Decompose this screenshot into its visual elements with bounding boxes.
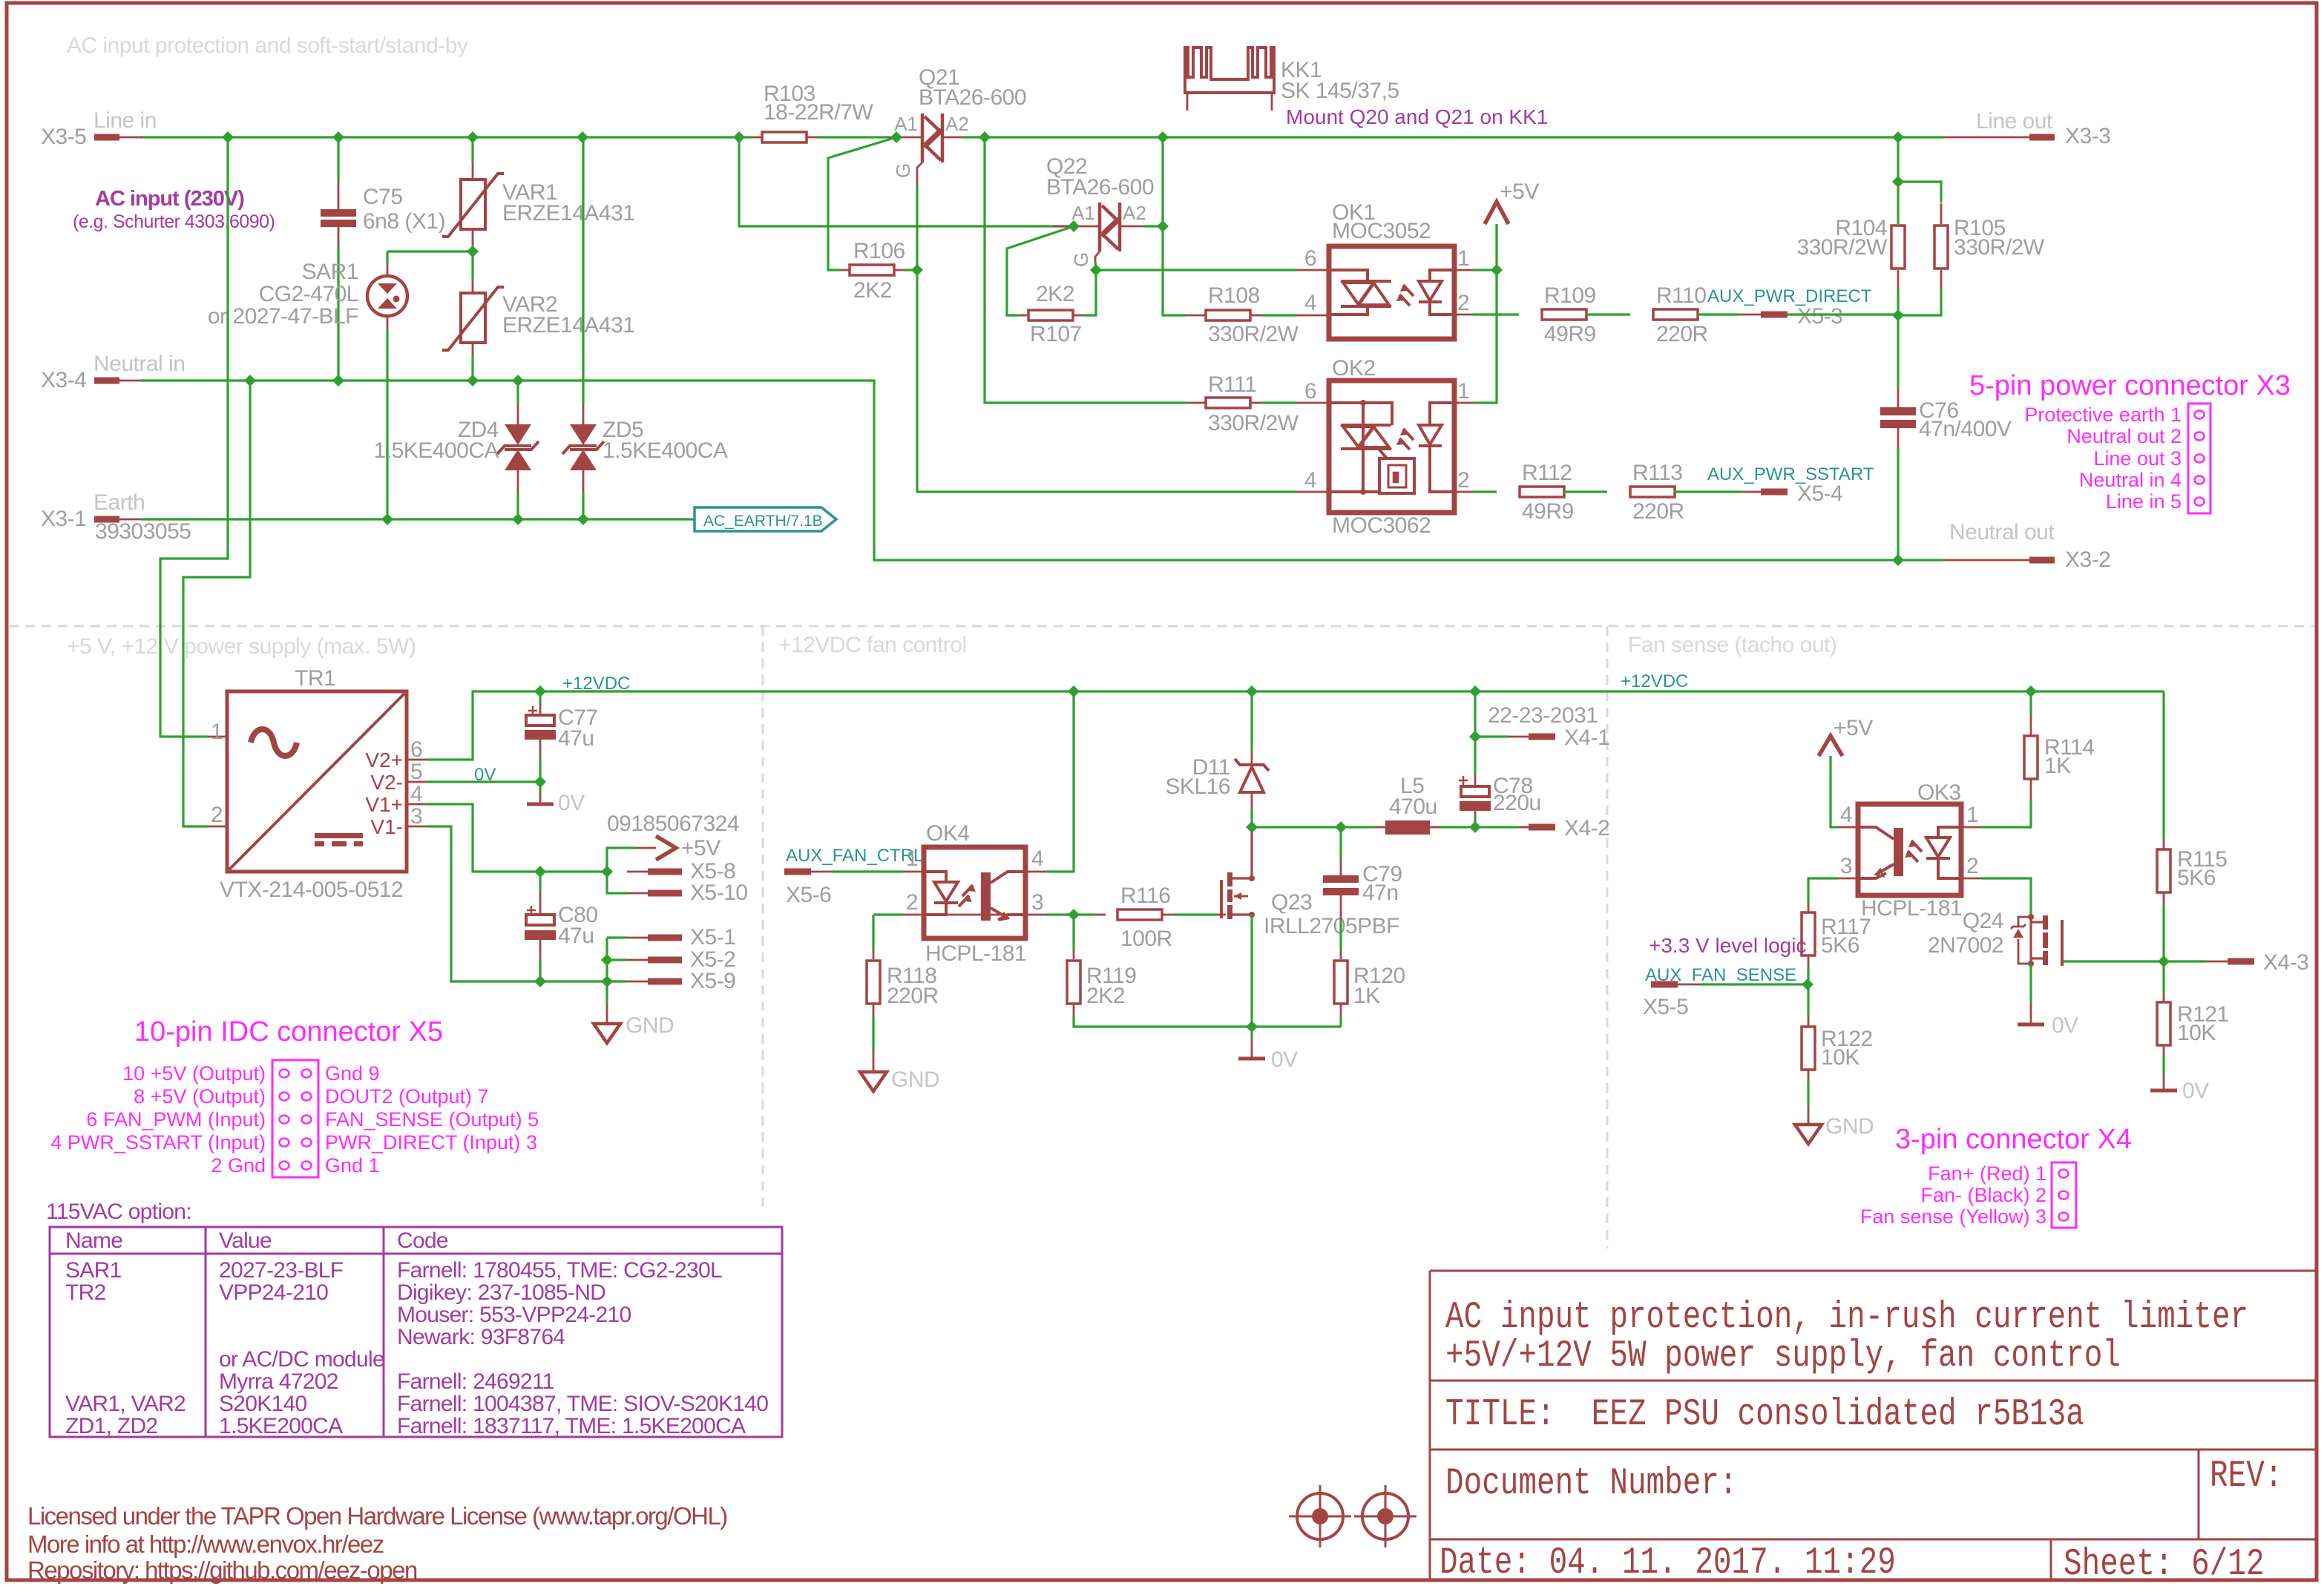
svg-text:10K: 10K bbox=[2177, 1021, 2216, 1045]
resistor R111 bbox=[1206, 398, 1250, 408]
svg-text:C75: C75 bbox=[363, 185, 403, 209]
svg-text:Myrra 47202: Myrra 47202 bbox=[219, 1369, 338, 1394]
svg-text:A2: A2 bbox=[1123, 202, 1146, 224]
svg-text:Farnell: 1780455, TME: CG2-230: Farnell: 1780455, TME: CG2-230L bbox=[397, 1258, 722, 1283]
wire neutral to TR1 pin2 bbox=[183, 381, 250, 826]
svg-text:R113: R113 bbox=[1632, 461, 1683, 485]
svg-text:1: 1 bbox=[1457, 379, 1469, 404]
svg-text:Mouser: 553-VPP24-210: Mouser: 553-VPP24-210 bbox=[397, 1303, 631, 1327]
svg-text:X4-2: X4-2 bbox=[1564, 816, 1609, 840]
svg-text:Digikey: 237-1085-ND: Digikey: 237-1085-ND bbox=[397, 1280, 605, 1305]
wire line to Q22 A1 bbox=[739, 137, 1074, 226]
pin X5-2 bbox=[607, 958, 627, 961]
svg-text:SKL16: SKL16 bbox=[1165, 774, 1230, 799]
svg-text:V1-: V1- bbox=[370, 815, 403, 838]
inductor L5 bbox=[1375, 826, 1385, 829]
optocoupler OK3 bbox=[1858, 804, 1961, 895]
svg-text:R107: R107 bbox=[1030, 322, 1082, 346]
svg-text:X3-5: X3-5 bbox=[41, 125, 86, 149]
svg-text:2: 2 bbox=[906, 890, 918, 915]
svg-text:AUX_FAN_SENSE: AUX_FAN_SENSE bbox=[1645, 965, 1796, 985]
svg-text:X5-1: X5-1 bbox=[690, 925, 735, 950]
svg-text:10K: 10K bbox=[1821, 1045, 1859, 1070]
svg-text:Fan sense (tacho out): Fan sense (tacho out) bbox=[1628, 633, 1836, 657]
pin X5-1 bbox=[607, 936, 627, 938]
svg-text:SAR1: SAR1 bbox=[65, 1258, 122, 1283]
svg-text:1: 1 bbox=[1966, 803, 1978, 827]
svg-text:4: 4 bbox=[1304, 291, 1316, 315]
svg-text:Name: Name bbox=[65, 1228, 122, 1253]
svg-text:Earth: Earth bbox=[93, 490, 145, 515]
+5V arrow at X5 bbox=[607, 848, 637, 872]
capacitor C76 bbox=[1897, 315, 1899, 389]
svg-text:3-pin connector X4: 3-pin connector X4 bbox=[1895, 1124, 2132, 1155]
svg-text:1.5KE400CA: 1.5KE400CA bbox=[603, 438, 728, 463]
svg-text:Mount Q20 and Q21 on KK1: Mount Q20 and Q21 on KK1 bbox=[1286, 105, 1548, 128]
svg-text:100R: 100R bbox=[1120, 927, 1172, 951]
svg-text:CG2-470L: CG2-470L bbox=[259, 282, 358, 306]
svg-text:Neutral out 2: Neutral out 2 bbox=[2067, 425, 2182, 447]
svg-text:OK4: OK4 bbox=[926, 821, 970, 846]
svg-text:Date: 04. 11. 2017. 11:29: Date: 04. 11. 2017. 11:29 bbox=[1440, 1541, 1896, 1585]
svg-text:3: 3 bbox=[1840, 854, 1852, 878]
MOSFET Q23 bbox=[1220, 880, 1223, 918]
capacitor C78 bbox=[1474, 691, 1476, 737]
wire Q22 gate / R107 bbox=[1084, 261, 1096, 315]
svg-text:470u: 470u bbox=[1389, 794, 1437, 819]
svg-text:1: 1 bbox=[906, 846, 918, 871]
svg-text:AUX_PWR_SSTART: AUX_PWR_SSTART bbox=[1707, 464, 1874, 484]
svg-text:R116: R116 bbox=[1120, 884, 1171, 908]
svg-text:X4-1: X4-1 bbox=[1564, 726, 1609, 750]
svg-text:2: 2 bbox=[211, 803, 223, 827]
svg-text:2: 2 bbox=[1966, 854, 1978, 878]
wire +12VDC rail bbox=[427, 691, 2164, 760]
svg-text:Code: Code bbox=[397, 1228, 448, 1253]
svg-text:AC input protection, in-rush c: AC input protection, in-rush current lim… bbox=[1445, 1295, 2248, 1339]
svg-text:+12VDC: +12VDC bbox=[562, 674, 630, 694]
pin X3-5 bbox=[94, 134, 119, 141]
svg-text:10-pin IDC connector X5: 10-pin IDC connector X5 bbox=[134, 1016, 443, 1047]
svg-text:MOC3062: MOC3062 bbox=[1332, 513, 1431, 538]
wire +5V rail bbox=[427, 804, 607, 872]
pin X5-8 bbox=[627, 871, 648, 873]
svg-text:1K: 1K bbox=[2044, 754, 2071, 778]
svg-text:More info at http://www.envox.: More info at http://www.envox.hr/eez bbox=[27, 1530, 384, 1558]
svg-text:G: G bbox=[1070, 252, 1092, 267]
svg-text:SK 145/37,5: SK 145/37,5 bbox=[1281, 79, 1399, 103]
wire X4-3 net bbox=[2064, 960, 2164, 962]
svg-text:Value: Value bbox=[219, 1228, 272, 1253]
svg-text:R108: R108 bbox=[1208, 283, 1260, 308]
svg-text:Farnell: 1004387, TME: SIOV-S2: Farnell: 1004387, TME: SIOV-S20K140 bbox=[397, 1392, 768, 1416]
svg-text:220u: 220u bbox=[1493, 791, 1541, 815]
svg-text:R109: R109 bbox=[1544, 283, 1596, 308]
svg-text:SAR1: SAR1 bbox=[302, 260, 358, 284]
svg-text:47n: 47n bbox=[1362, 881, 1399, 905]
resistor R113 bbox=[1630, 487, 1675, 497]
svg-text:Line out 3: Line out 3 bbox=[2093, 447, 2182, 470]
net flag AC_EARTH/7.1B bbox=[695, 507, 836, 531]
svg-text:Line out: Line out bbox=[1976, 109, 2053, 134]
resistors R104 R105 bbox=[1897, 137, 1899, 185]
+5V arrow OK3 bbox=[1819, 736, 1842, 756]
svg-text:47u: 47u bbox=[558, 924, 594, 948]
pin X3-1 bbox=[94, 516, 119, 523]
svg-text:220R: 220R bbox=[1656, 322, 1708, 346]
svg-text:2K2: 2K2 bbox=[853, 278, 892, 303]
capacitor C79 bbox=[1339, 827, 1342, 861]
svg-text:4: 4 bbox=[410, 782, 422, 806]
resistor R121 bbox=[2162, 961, 2164, 993]
svg-text:TITLE: EEZ PSU consolidated r: TITLE: EEZ PSU consolidated r5B13a bbox=[1445, 1392, 2084, 1436]
svg-text:330R/2W: 330R/2W bbox=[1208, 322, 1299, 346]
svg-text:Q24: Q24 bbox=[1963, 909, 2003, 933]
svg-text:Farnell: 2469211: Farnell: 2469211 bbox=[397, 1369, 554, 1394]
resistor R119 bbox=[1072, 915, 1074, 950]
resistor R107 bbox=[1028, 310, 1073, 320]
svg-text:X5-4: X5-4 bbox=[1797, 481, 1842, 506]
svg-text:GND: GND bbox=[1825, 1114, 1874, 1139]
svg-text:1: 1 bbox=[211, 720, 223, 744]
svg-text:1: 1 bbox=[1457, 246, 1469, 271]
varistor VAR1 bbox=[471, 137, 473, 162]
svg-text:Licensed under the TAPR Open H: Licensed under the TAPR Open Hardware Li… bbox=[27, 1502, 727, 1530]
svg-text:or AC/DC module: or AC/DC module bbox=[219, 1347, 384, 1372]
svg-text:49R9: 49R9 bbox=[1544, 322, 1596, 346]
svg-text:22-23-2031: 22-23-2031 bbox=[1488, 703, 1598, 728]
svg-text:IRLL2705PBF: IRLL2705PBF bbox=[1264, 914, 1399, 938]
svg-text:AUX_FAN_CTRL: AUX_FAN_CTRL bbox=[786, 846, 923, 866]
resistor R120 bbox=[1340, 950, 1342, 959]
resistor R118 bbox=[924, 914, 1025, 916]
resistor R109 bbox=[1542, 309, 1586, 320]
svg-text:6: 6 bbox=[1304, 379, 1316, 404]
svg-text:Neutral out: Neutral out bbox=[1949, 520, 2055, 545]
pin X4-3 bbox=[2228, 958, 2254, 965]
svg-text:+5V: +5V bbox=[681, 836, 720, 861]
svg-text:0V: 0V bbox=[474, 765, 496, 785]
triac Q22 bbox=[1054, 226, 1100, 228]
wire V1- line bbox=[427, 826, 607, 981]
svg-text:+5V: +5V bbox=[1500, 180, 1539, 204]
zener diode D11 bbox=[1250, 691, 1253, 751]
svg-text:6n8 (X1): 6n8 (X1) bbox=[363, 209, 445, 234]
svg-text:VPP24-210: VPP24-210 bbox=[219, 1280, 328, 1305]
svg-text:Repository: https://github.com: Repository: https://github.com/eez-open bbox=[27, 1556, 417, 1584]
pin X5-6 net AUX_FAN_CTRL bbox=[784, 869, 811, 875]
svg-text:or 2027-47-BLF: or 2027-47-BLF bbox=[208, 304, 358, 329]
triac Q21 bbox=[887, 136, 922, 139]
svg-text:X3-1: X3-1 bbox=[41, 507, 86, 531]
svg-text:2K2: 2K2 bbox=[1086, 984, 1125, 1008]
svg-text:4: 4 bbox=[1031, 846, 1043, 871]
resistor R106 bbox=[850, 265, 894, 275]
svg-text:+12VDC fan control: +12VDC fan control bbox=[778, 633, 967, 657]
svg-text:X3-3: X3-3 bbox=[2065, 124, 2110, 148]
svg-text:1.5KE400CA: 1.5KE400CA bbox=[374, 438, 499, 463]
resistor R114 bbox=[2029, 691, 2032, 715]
svg-text:5: 5 bbox=[410, 760, 422, 784]
pin X5-10 bbox=[607, 872, 627, 893]
svg-text:GND: GND bbox=[891, 1067, 939, 1092]
svg-text:DOUT2 (Output) 7: DOUT2 (Output) 7 bbox=[325, 1085, 489, 1108]
svg-text:0V: 0V bbox=[2182, 1079, 2209, 1103]
spark gap SAR1 bbox=[387, 250, 473, 252]
svg-text:4 PWR_SSTART (Input): 4 PWR_SSTART (Input) bbox=[50, 1131, 266, 1154]
svg-text:0V: 0V bbox=[1271, 1047, 1298, 1072]
wire X4-2 line bbox=[1252, 826, 1375, 828]
svg-text:330R/2W: 330R/2W bbox=[1208, 411, 1299, 435]
svg-text:TR1: TR1 bbox=[295, 666, 335, 691]
svg-text:39303055: 39303055 bbox=[95, 519, 191, 544]
svg-text:HCPL-181: HCPL-181 bbox=[1861, 896, 1962, 921]
svg-text:2 Gnd: 2 Gnd bbox=[211, 1154, 266, 1177]
svg-text:6 FAN_PWM (Input): 6 FAN_PWM (Input) bbox=[86, 1108, 266, 1131]
pin X4-2 bbox=[1518, 826, 1529, 829]
svg-text:A1: A1 bbox=[1071, 202, 1095, 224]
MOSFET Q24 bbox=[1961, 878, 1981, 880]
svg-text:X3-4: X3-4 bbox=[41, 368, 86, 392]
svg-text:49R9: 49R9 bbox=[1522, 499, 1574, 524]
svg-text:MOC3052: MOC3052 bbox=[1332, 219, 1431, 243]
pin X5-4 bbox=[1761, 489, 1788, 496]
pin X5-5 net AUX_FAN_SENSE bbox=[1651, 981, 1678, 988]
svg-text:X4-3: X4-3 bbox=[2263, 950, 2308, 975]
svg-text:AC input protection and soft-s: AC input protection and soft-start/stand… bbox=[67, 33, 468, 58]
svg-text:PWR_DIRECT (Input) 3: PWR_DIRECT (Input) 3 bbox=[325, 1131, 537, 1154]
wire Q21 gate to OK2 pin4 bbox=[917, 185, 1296, 492]
0V symbol Q23 line bbox=[1250, 1027, 1253, 1039]
optocoupler OK1 bbox=[1329, 246, 1454, 339]
svg-text:Newark: 93F8764: Newark: 93F8764 bbox=[397, 1325, 565, 1349]
svg-text:5K6: 5K6 bbox=[2177, 866, 2216, 890]
svg-text:HCPL-181: HCPL-181 bbox=[925, 941, 1026, 966]
svg-text:Fan+ (Red) 1: Fan+ (Red) 1 bbox=[1928, 1162, 2046, 1185]
svg-text:330R/2W: 330R/2W bbox=[1954, 235, 2045, 260]
svg-text:8 +5V (Output): 8 +5V (Output) bbox=[134, 1085, 266, 1108]
svg-text:6: 6 bbox=[1304, 246, 1316, 271]
wire OK4 pin4 to +12VDC bbox=[1025, 871, 1046, 873]
pin X3-3 Line out bbox=[2029, 134, 2055, 141]
svg-text:Neutral in: Neutral in bbox=[93, 352, 185, 376]
pin X5-9 bbox=[607, 980, 627, 982]
svg-text:Neutral in 4: Neutral in 4 bbox=[2079, 469, 2182, 491]
svg-text:3: 3 bbox=[410, 804, 422, 829]
svg-text:AC input (230V): AC input (230V) bbox=[95, 187, 244, 211]
svg-text:X5-3: X5-3 bbox=[1797, 304, 1842, 329]
svg-text:Gnd 9: Gnd 9 bbox=[325, 1062, 380, 1085]
svg-text:09185067324: 09185067324 bbox=[607, 812, 739, 836]
svg-text:10 +5V (Output): 10 +5V (Output) bbox=[122, 1062, 266, 1085]
+5V supply arrow (OK1/OK2) bbox=[1454, 269, 1473, 272]
svg-text:AC_EARTH/7.1B: AC_EARTH/7.1B bbox=[703, 513, 823, 530]
pin X3-2 Neutral out bbox=[2029, 557, 2055, 564]
svg-text:(e.g. Schurter 4303.6090): (e.g. Schurter 4303.6090) bbox=[73, 211, 275, 232]
svg-text:V2-: V2- bbox=[370, 771, 403, 794]
svg-text:Line in: Line in bbox=[93, 108, 157, 133]
wire Earth rail bbox=[141, 518, 695, 520]
optocoupler OK2 bbox=[1329, 381, 1454, 513]
svg-text:+5 V, +12 V power supply (max.: +5 V, +12 V power supply (max. 5W) bbox=[67, 634, 416, 659]
pin X5-3 bbox=[1761, 312, 1788, 318]
title block bbox=[1430, 1271, 2317, 1580]
resistor R115 bbox=[2162, 691, 2164, 838]
svg-text:Q23: Q23 bbox=[1271, 890, 1312, 915]
svg-text:0V: 0V bbox=[2052, 1013, 2078, 1038]
svg-text:V2+: V2+ bbox=[365, 749, 403, 772]
heatsink KK1 bbox=[1185, 47, 1274, 93]
capacitor C77 bbox=[539, 691, 541, 703]
svg-text:115VAC option:: 115VAC option: bbox=[46, 1200, 191, 1224]
svg-text:220R: 220R bbox=[1632, 499, 1684, 524]
svg-text:Sheet: 6/12: Sheet: 6/12 bbox=[2064, 1542, 2265, 1586]
svg-text:18-22R/7W: 18-22R/7W bbox=[764, 100, 873, 125]
TVS diode ZD5 bbox=[582, 137, 584, 404]
TVS diode ZD4 bbox=[516, 381, 519, 404]
svg-text:A1: A1 bbox=[894, 113, 918, 135]
resistor R117 bbox=[1838, 878, 1858, 880]
svg-text:+5V: +5V bbox=[1834, 716, 1873, 740]
pin X3-4 bbox=[94, 378, 119, 384]
svg-text:0V: 0V bbox=[558, 791, 585, 815]
svg-text:+5V/+12V 5W power supply, fan: +5V/+12V 5W power supply, fan control bbox=[1445, 1334, 2121, 1378]
svg-text:Protective earth 1: Protective earth 1 bbox=[2024, 404, 2182, 426]
svg-text:GND: GND bbox=[626, 1013, 674, 1038]
resistor R103 bbox=[753, 136, 762, 139]
0V node at TR1 bbox=[427, 780, 540, 783]
svg-text:X5-9: X5-9 bbox=[690, 969, 735, 993]
svg-text:X5-5: X5-5 bbox=[1643, 995, 1688, 1019]
wire Q21 A2 to R111/OK2 pin6 bbox=[985, 137, 1186, 403]
svg-text:X5-6: X5-6 bbox=[786, 883, 831, 907]
svg-text:Document Number:: Document Number: bbox=[1445, 1461, 1738, 1505]
svg-text:+12VDC: +12VDC bbox=[1621, 671, 1688, 691]
svg-text:BTA26-600: BTA26-600 bbox=[919, 85, 1026, 110]
svg-text:AUX_PWR_DIRECT: AUX_PWR_DIRECT bbox=[1707, 286, 1872, 306]
svg-text:4: 4 bbox=[1304, 468, 1316, 493]
varistor VAR2 bbox=[471, 251, 473, 282]
wire Line rail bbox=[141, 136, 753, 138]
wire A1 diagonal / R106 bbox=[895, 137, 897, 139]
svg-text:X3-2: X3-2 bbox=[2065, 547, 2110, 572]
svg-text:Line in 5: Line in 5 bbox=[2106, 490, 2182, 513]
svg-text:S20K140: S20K140 bbox=[219, 1392, 307, 1416]
resistor R122 bbox=[1807, 984, 1809, 1016]
wire Neutral rail bbox=[141, 381, 1944, 560]
resistor R112 bbox=[1520, 487, 1564, 497]
pin X4-1 bbox=[1475, 735, 1508, 737]
svg-text:OK3: OK3 bbox=[1917, 780, 1961, 805]
resistor R108 bbox=[1206, 310, 1250, 320]
svg-text:VTX-214-005-0512: VTX-214-005-0512 bbox=[220, 878, 403, 902]
resistor R110 bbox=[1653, 309, 1698, 320]
svg-text:ERZE14A431: ERZE14A431 bbox=[502, 201, 634, 226]
svg-text:4: 4 bbox=[1840, 803, 1852, 827]
svg-text:5K6: 5K6 bbox=[1821, 933, 1859, 958]
svg-text:220R: 220R bbox=[887, 984, 939, 1008]
svg-text:Fan sense (Yellow) 3: Fan sense (Yellow) 3 bbox=[1860, 1205, 2046, 1228]
svg-text:47n/400V: 47n/400V bbox=[1919, 417, 2012, 441]
svg-text:V1+: V1+ bbox=[365, 793, 403, 816]
svg-text:VAR1, VAR2: VAR1, VAR2 bbox=[65, 1392, 186, 1416]
svg-text:1.5KE200CA: 1.5KE200CA bbox=[219, 1414, 343, 1438]
wire Q22 A2 net bbox=[1161, 137, 1163, 226]
svg-text:TR2: TR2 bbox=[65, 1280, 106, 1305]
wire OK2 pin2 net AUX_PWR_SSTART bbox=[1454, 491, 1473, 493]
svg-text:+3.3 V level logic: +3.3 V level logic bbox=[1649, 934, 1806, 957]
wire OK1 pin2 net AUX_PWR_DIRECT bbox=[1454, 314, 1473, 316]
svg-text:1K: 1K bbox=[1353, 984, 1380, 1008]
registration marks bbox=[1297, 1493, 1343, 1539]
svg-text:BTA26-600: BTA26-600 bbox=[1046, 175, 1154, 200]
svg-text:FAN_SENSE (Output) 5: FAN_SENSE (Output) 5 bbox=[325, 1108, 539, 1131]
capacitor C80 bbox=[539, 872, 541, 892]
svg-text:330R/2W: 330R/2W bbox=[1796, 235, 1888, 260]
svg-text:R111: R111 bbox=[1208, 372, 1256, 397]
svg-text:ZD1, ZD2: ZD1, ZD2 bbox=[65, 1414, 157, 1438]
capacitor C75 bbox=[337, 137, 339, 181]
svg-text:Farnell: 1837117, TME: 1.5KE20: Farnell: 1837117, TME: 1.5KE200CA bbox=[397, 1414, 746, 1438]
svg-text:Gnd 1: Gnd 1 bbox=[325, 1154, 380, 1177]
svg-text:Fan- (Black) 2: Fan- (Black) 2 bbox=[1920, 1184, 2046, 1206]
svg-text:G: G bbox=[892, 163, 914, 178]
svg-text:X5-10: X5-10 bbox=[690, 881, 748, 905]
svg-text:OK2: OK2 bbox=[1332, 356, 1376, 381]
svg-text:ERZE14A431: ERZE14A431 bbox=[502, 313, 634, 338]
svg-text:REV:: REV: bbox=[2210, 1454, 2282, 1498]
GND symbol X5 bbox=[605, 938, 608, 1005]
svg-text:R110: R110 bbox=[1656, 283, 1707, 308]
svg-text:2: 2 bbox=[1457, 291, 1469, 315]
svg-text:2N7002: 2N7002 bbox=[1928, 933, 2003, 958]
svg-text:3: 3 bbox=[1031, 890, 1043, 915]
svg-text:6: 6 bbox=[410, 737, 422, 762]
optocoupler OK4 bbox=[924, 847, 1025, 938]
wire line-in to TR1 pin1 bbox=[160, 137, 228, 737]
svg-text:A2: A2 bbox=[945, 113, 969, 135]
svg-text:2027-23-BLF: 2027-23-BLF bbox=[219, 1258, 344, 1283]
resistor R116 bbox=[1025, 914, 1046, 916]
svg-text:5-pin power connector X3: 5-pin power connector X3 bbox=[1969, 370, 2291, 401]
svg-text:R106: R106 bbox=[853, 239, 905, 263]
transformer TR1 bbox=[227, 691, 407, 872]
svg-text:47u: 47u bbox=[558, 726, 594, 751]
svg-text:R112: R112 bbox=[1522, 461, 1572, 485]
svg-text:2: 2 bbox=[1457, 468, 1469, 493]
svg-text:2K2: 2K2 bbox=[1036, 282, 1074, 306]
